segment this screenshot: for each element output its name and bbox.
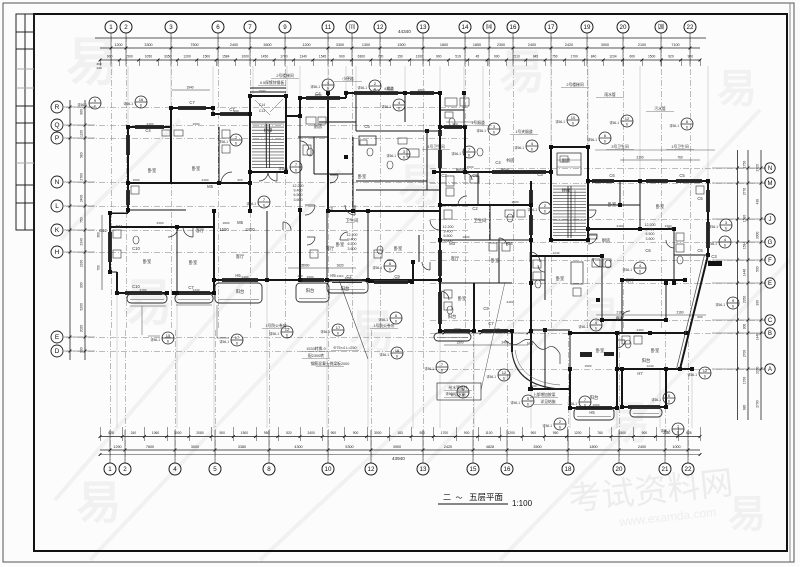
svg-text:卧室: 卧室 xyxy=(491,257,500,264)
svg-text:C5: C5 xyxy=(364,124,370,129)
svg-text:2400: 2400 xyxy=(307,431,315,435)
svg-text:760: 760 xyxy=(677,156,683,160)
svg-text:3380: 3380 xyxy=(238,445,246,449)
bay bracket leaders xyxy=(130,305,166,307)
svg-text:1号夹烟道: 1号夹烟道 xyxy=(515,129,533,134)
svg-text:M: M xyxy=(768,181,773,187)
svg-text:C11: C11 xyxy=(115,224,123,229)
svg-text:⒇: ⒇ xyxy=(658,23,664,31)
svg-text:750: 750 xyxy=(552,55,558,59)
svg-text:阳台: 阳台 xyxy=(642,357,651,364)
svg-text:3000: 3000 xyxy=(374,431,382,435)
svg-text:L: L xyxy=(55,203,59,210)
svg-text:C7: C7 xyxy=(488,321,494,326)
svg-text:900: 900 xyxy=(107,55,113,59)
svg-text:6: 6 xyxy=(493,131,495,135)
top dimension line 1 xyxy=(100,47,700,49)
svg-text:6.500: 6.500 xyxy=(444,234,453,238)
svg-text:6: 6 xyxy=(327,87,329,91)
svg-text:18: 18 xyxy=(565,466,572,473)
svg-text:3900: 3900 xyxy=(393,445,401,449)
svg-text:3000: 3000 xyxy=(191,445,199,449)
svg-text:21: 21 xyxy=(662,466,669,473)
svg-text:11: 11 xyxy=(325,24,332,31)
svg-text:C12: C12 xyxy=(99,228,107,233)
window symbols xyxy=(135,125,164,127)
svg-text:2180: 2180 xyxy=(616,311,623,315)
svg-text:6: 6 xyxy=(286,334,288,338)
svg-text:C4: C4 xyxy=(145,128,151,133)
vertical column grid lines upper xyxy=(110,36,112,330)
svg-text:900: 900 xyxy=(237,178,242,182)
svg-text:H7: H7 xyxy=(637,371,643,376)
svg-text:438: 438 xyxy=(756,199,760,205)
svg-text:厨房: 厨房 xyxy=(314,123,323,130)
svg-text:6: 6 xyxy=(668,400,670,404)
svg-text:3号卫生间: 3号卫生间 xyxy=(611,144,629,149)
svg-text:6: 6 xyxy=(677,431,679,435)
svg-text:6.500: 6.500 xyxy=(294,193,303,197)
svg-text:易: 易 xyxy=(76,477,121,528)
svg-text:900: 900 xyxy=(219,431,225,435)
svg-text:C5: C5 xyxy=(679,173,685,178)
svg-text:B: B xyxy=(768,331,772,337)
door swing arcs xyxy=(221,172,232,183)
svg-text:1500: 1500 xyxy=(387,258,394,262)
svg-text:6: 6 xyxy=(235,142,237,146)
svg-text:1545: 1545 xyxy=(319,55,327,59)
svg-text:1500: 1500 xyxy=(456,341,463,345)
annotation box 给水管道井 xyxy=(437,383,481,400)
svg-text:950: 950 xyxy=(553,431,559,435)
svg-text:2420: 2420 xyxy=(444,445,452,449)
svg-text:1240: 1240 xyxy=(345,276,352,280)
svg-text:A: A xyxy=(768,367,772,373)
svg-text:易: 易 xyxy=(717,67,757,111)
svg-text:详66-1: 详66-1 xyxy=(379,352,389,357)
svg-text:6: 6 xyxy=(572,122,574,126)
svg-text:2520: 2520 xyxy=(373,88,380,92)
svg-text:2110: 2110 xyxy=(337,274,344,278)
svg-text:1号烟道: 1号烟道 xyxy=(471,120,485,125)
building walls xyxy=(127,127,129,213)
svg-text:1500: 1500 xyxy=(307,275,314,279)
svg-text:6: 6 xyxy=(503,377,505,381)
svg-text:1300: 1300 xyxy=(665,224,672,228)
svg-text:900: 900 xyxy=(743,324,747,330)
svg-text:客厅: 客厅 xyxy=(451,255,460,262)
svg-text:1500: 1500 xyxy=(125,55,133,59)
svg-text:6: 6 xyxy=(704,375,706,379)
svg-text:详见结施: 详见结施 xyxy=(540,399,555,404)
svg-text:详66-1: 详66-1 xyxy=(381,104,391,109)
svg-text:～: ～ xyxy=(456,495,463,502)
svg-text:628: 628 xyxy=(686,431,692,435)
svg-text:1290: 1290 xyxy=(113,445,121,449)
svg-text:12.200: 12.200 xyxy=(443,225,454,229)
svg-text:0.5厚镀锌钢板: 0.5厚镀锌钢板 xyxy=(260,80,284,85)
svg-text:519: 519 xyxy=(455,55,461,59)
svg-text:6: 6 xyxy=(639,270,641,274)
svg-text:详66-1: 详66-1 xyxy=(424,366,434,371)
svg-text:8: 8 xyxy=(267,466,271,473)
svg-text:5300: 5300 xyxy=(345,445,353,449)
svg-text:1584: 1584 xyxy=(222,55,230,59)
title block strip xyxy=(16,14,34,230)
svg-text:2400: 2400 xyxy=(501,341,508,345)
svg-text:1500: 1500 xyxy=(397,43,405,47)
svg-text:4: 4 xyxy=(173,466,177,473)
svg-text:污水管: 污水管 xyxy=(654,106,666,111)
svg-text:183: 183 xyxy=(397,431,403,435)
svg-text:17: 17 xyxy=(235,335,240,340)
svg-text:6: 6 xyxy=(725,227,727,231)
svg-text:6: 6 xyxy=(441,369,443,373)
svg-text:D: D xyxy=(55,348,60,355)
svg-text:6: 6 xyxy=(389,268,391,272)
svg-text:H5: H5 xyxy=(589,410,595,415)
svg-text:6: 6 xyxy=(544,210,546,214)
svg-text:17: 17 xyxy=(548,24,555,31)
svg-text:卧室: 卧室 xyxy=(358,173,367,180)
svg-text:45: 45 xyxy=(476,55,480,59)
svg-text:6: 6 xyxy=(626,123,628,127)
svg-text:易: 易 xyxy=(349,306,395,358)
svg-text:2350: 2350 xyxy=(756,367,760,375)
svg-text:3600: 3600 xyxy=(263,43,271,47)
svg-text:4828: 4828 xyxy=(486,445,494,449)
svg-text:C5: C5 xyxy=(697,196,703,201)
svg-text:9.400: 9.400 xyxy=(294,189,303,193)
svg-text:Φ75×4 L=250: Φ75×4 L=250 xyxy=(333,346,356,350)
svg-text:详66-1: 详66-1 xyxy=(669,123,679,128)
svg-text:1200: 1200 xyxy=(183,55,191,59)
slanted right wall xyxy=(680,255,708,369)
svg-text:6: 6 xyxy=(584,404,586,408)
svg-text:900: 900 xyxy=(531,384,536,388)
svg-text:详见水施: 详见水施 xyxy=(450,392,465,397)
svg-text:1580: 1580 xyxy=(743,215,747,223)
svg-text:M5: M5 xyxy=(237,220,243,225)
svg-text:卧室: 卧室 xyxy=(596,347,605,354)
svg-text:卧室: 卧室 xyxy=(656,203,665,210)
svg-text:E: E xyxy=(768,281,772,287)
svg-text:920: 920 xyxy=(452,122,457,126)
left grid bubbles xyxy=(51,101,63,113)
svg-text:详66-1: 详66-1 xyxy=(555,119,565,124)
svg-text:H5: H5 xyxy=(235,273,241,278)
svg-text:840: 840 xyxy=(591,55,597,59)
svg-text:9.400: 9.400 xyxy=(646,228,655,232)
svg-text:C6: C6 xyxy=(645,248,651,253)
svg-text:900: 900 xyxy=(531,431,537,435)
svg-text:阳台: 阳台 xyxy=(306,287,315,294)
svg-text:12: 12 xyxy=(502,370,507,375)
svg-text:1446: 1446 xyxy=(756,333,760,341)
svg-text:960: 960 xyxy=(80,109,84,115)
svg-text:2780: 2780 xyxy=(80,173,84,181)
svg-text:15: 15 xyxy=(166,333,171,338)
svg-text:9: 9 xyxy=(283,24,287,31)
svg-text:3.600: 3.600 xyxy=(444,239,453,243)
fixtures xyxy=(359,136,376,145)
svg-text:五层平面: 五层平面 xyxy=(469,492,504,502)
svg-text:2400: 2400 xyxy=(637,328,644,332)
svg-text:卧室: 卧室 xyxy=(192,165,201,172)
svg-text:3.600: 3.600 xyxy=(348,247,357,251)
detail callout circles xyxy=(135,96,147,108)
svg-text:6300: 6300 xyxy=(358,55,366,59)
stair arrows xyxy=(265,122,267,162)
svg-text:900: 900 xyxy=(464,431,470,435)
svg-text:2350: 2350 xyxy=(743,296,747,304)
svg-text:详66-1: 详66-1 xyxy=(476,128,486,133)
svg-text:7100: 7100 xyxy=(671,43,679,47)
svg-text:1500: 1500 xyxy=(241,431,249,435)
svg-text:2700: 2700 xyxy=(140,288,147,292)
svg-text:13: 13 xyxy=(420,24,427,31)
svg-text:1500: 1500 xyxy=(203,55,211,59)
svg-text:详66-1: 详66-1 xyxy=(278,166,288,171)
svg-text:2400: 2400 xyxy=(202,178,209,182)
svg-text:1000: 1000 xyxy=(672,445,680,449)
svg-text:详66-1: 详66-1 xyxy=(527,207,537,212)
svg-text:配2300转: 配2300转 xyxy=(308,353,324,358)
svg-text:餐厅: 餐厅 xyxy=(616,315,625,322)
svg-text:900: 900 xyxy=(642,431,648,435)
svg-text:1500: 1500 xyxy=(585,364,592,368)
svg-text:2400: 2400 xyxy=(242,275,249,279)
svg-text:3: 3 xyxy=(169,24,173,31)
svg-text:客厅: 客厅 xyxy=(626,277,635,284)
svg-text:3300: 3300 xyxy=(336,43,344,47)
svg-text:900: 900 xyxy=(697,315,702,319)
svg-text:详66-1: 详66-1 xyxy=(567,401,577,406)
svg-text:1500: 1500 xyxy=(259,89,266,93)
svg-text:厨房: 厨房 xyxy=(602,237,611,244)
top grid bubbles xyxy=(105,21,117,33)
svg-text:详66-1: 详66-1 xyxy=(687,372,697,377)
svg-text:1050: 1050 xyxy=(145,55,153,59)
svg-text:900: 900 xyxy=(688,55,694,59)
svg-text:12: 12 xyxy=(377,24,384,31)
leader line annotations xyxy=(595,149,715,151)
svg-text:920: 920 xyxy=(494,327,499,331)
extension lines to top band xyxy=(127,66,129,127)
svg-text:240: 240 xyxy=(131,431,137,435)
svg-text:1800: 1800 xyxy=(589,445,597,449)
svg-text:C: C xyxy=(768,318,773,324)
svg-text:2400: 2400 xyxy=(230,43,238,47)
svg-text:客厅: 客厅 xyxy=(326,245,335,252)
svg-text:2: 2 xyxy=(124,24,128,31)
svg-text:1594: 1594 xyxy=(743,242,747,250)
svg-text:720: 720 xyxy=(378,55,384,59)
svg-text:2400: 2400 xyxy=(393,277,400,281)
left dimension lines xyxy=(69,100,71,360)
svg-text:详66-1: 详66-1 xyxy=(269,331,279,336)
svg-text:详66-1: 详66-1 xyxy=(510,400,520,405)
svg-text:6: 6 xyxy=(140,104,142,108)
svg-text:详66-1: 详66-1 xyxy=(386,153,396,158)
svg-text:2160: 2160 xyxy=(80,260,84,268)
svg-text:750: 750 xyxy=(80,217,84,223)
svg-text:20: 20 xyxy=(620,24,627,31)
svg-text:6: 6 xyxy=(724,244,726,248)
svg-text:卧室: 卧室 xyxy=(336,241,345,248)
svg-text:6: 6 xyxy=(396,355,398,359)
svg-text:12: 12 xyxy=(625,116,630,121)
svg-text:1号卫生间: 1号卫生间 xyxy=(427,144,445,149)
svg-text:1:100: 1:100 xyxy=(512,499,533,508)
svg-text:C5: C5 xyxy=(697,248,703,253)
svg-text:卫生间: 卫生间 xyxy=(346,217,359,224)
svg-text:300: 300 xyxy=(756,300,760,306)
svg-text:餐厅: 餐厅 xyxy=(501,167,510,174)
svg-text:4300: 4300 xyxy=(294,445,302,449)
right grid bubbles xyxy=(765,163,775,173)
svg-text:C2: C2 xyxy=(472,206,478,211)
svg-text:详66-1: 详66-1 xyxy=(542,423,552,428)
svg-text:6: 6 xyxy=(527,403,529,407)
svg-text:1200: 1200 xyxy=(507,431,515,435)
svg-text:1500: 1500 xyxy=(619,431,627,435)
svg-text:1700: 1700 xyxy=(571,55,579,59)
svg-text:6: 6 xyxy=(403,156,405,160)
svg-text:150: 150 xyxy=(397,55,403,59)
svg-text:6: 6 xyxy=(686,126,688,130)
svg-text:1000: 1000 xyxy=(241,55,249,59)
bottom overall dimension line xyxy=(100,454,700,456)
svg-text:1940: 1940 xyxy=(186,86,193,90)
svg-text:1520: 1520 xyxy=(467,165,474,169)
svg-text:2020: 2020 xyxy=(80,325,84,333)
svg-text:1200: 1200 xyxy=(574,431,582,435)
svg-text:1: 1 xyxy=(108,466,112,473)
svg-text:900: 900 xyxy=(80,347,84,353)
svg-text:楼梯: 楼梯 xyxy=(264,127,273,134)
svg-text:920: 920 xyxy=(668,55,674,59)
svg-text:900: 900 xyxy=(80,282,84,288)
svg-text:1100: 1100 xyxy=(80,130,84,137)
svg-text:卧室: 卧室 xyxy=(148,167,157,174)
svg-text:43940: 43940 xyxy=(392,456,405,461)
svg-text:2号楼梯间: 2号楼梯间 xyxy=(566,82,584,87)
svg-text:9.400: 9.400 xyxy=(444,230,453,234)
svg-text:460: 460 xyxy=(297,274,302,278)
svg-text:M5: M5 xyxy=(207,184,213,189)
svg-text:厨房: 厨房 xyxy=(456,167,465,174)
svg-text:雨水管: 雨水管 xyxy=(604,92,616,97)
svg-text:16: 16 xyxy=(139,97,144,102)
svg-text:12.200: 12.200 xyxy=(347,233,358,237)
beam section mark xyxy=(708,261,722,266)
right dimension lines xyxy=(737,150,739,420)
svg-text:22: 22 xyxy=(685,466,692,473)
svg-text:2400: 2400 xyxy=(507,300,514,304)
svg-text:N: N xyxy=(768,166,772,172)
svg-text:12: 12 xyxy=(703,368,708,373)
svg-text:书房: 书房 xyxy=(506,157,515,164)
svg-text:N: N xyxy=(55,179,60,186)
svg-text:900: 900 xyxy=(233,109,238,113)
svg-text:1240: 1240 xyxy=(647,364,654,368)
svg-text:900: 900 xyxy=(339,55,345,59)
svg-text:1500: 1500 xyxy=(219,227,229,232)
svg-text:详66-1: 详66-1 xyxy=(357,85,367,90)
svg-text:2100: 2100 xyxy=(636,156,643,160)
svg-text:12: 12 xyxy=(368,466,375,473)
svg-text:6: 6 xyxy=(295,169,297,173)
svg-text:详66-1: 详66-1 xyxy=(451,151,461,156)
svg-text:阳台: 阳台 xyxy=(341,285,350,292)
svg-text:16: 16 xyxy=(504,466,511,473)
svg-text:阳台: 阳台 xyxy=(236,288,245,295)
svg-text:7500: 7500 xyxy=(190,43,198,47)
svg-text:1200: 1200 xyxy=(302,43,310,47)
svg-text:1060: 1060 xyxy=(152,431,160,435)
svg-text:6: 6 xyxy=(167,340,169,344)
svg-text:二: 二 xyxy=(443,493,451,502)
svg-text:3300: 3300 xyxy=(144,43,152,47)
svg-text:详66-1: 详66-1 xyxy=(651,397,661,402)
svg-text:卧室: 卧室 xyxy=(608,201,617,208)
svg-text:12.200: 12.200 xyxy=(293,184,304,188)
svg-text:1700: 1700 xyxy=(441,431,449,435)
svg-text:1800: 1800 xyxy=(440,43,448,47)
svg-text:945: 945 xyxy=(533,55,539,59)
svg-text:C5: C5 xyxy=(472,173,478,178)
bottom dimension line 2 xyxy=(100,449,700,451)
svg-text:F: F xyxy=(768,258,772,264)
svg-text:500: 500 xyxy=(756,266,760,272)
svg-text:详66-1: 详66-1 xyxy=(218,139,228,144)
svg-text:1620: 1620 xyxy=(336,264,343,268)
svg-text:1700: 1700 xyxy=(743,377,747,385)
svg-text:1800: 1800 xyxy=(454,327,461,331)
svg-text:给水管道井: 给水管道井 xyxy=(449,385,468,390)
svg-text:1340: 1340 xyxy=(193,288,200,292)
svg-text:C3: C3 xyxy=(537,172,543,177)
svg-text:12.200: 12.200 xyxy=(645,223,656,227)
bottom grid bubbles xyxy=(104,463,116,475)
svg-text:20: 20 xyxy=(616,466,623,473)
svg-text:2700: 2700 xyxy=(743,350,747,358)
svg-text:1300: 1300 xyxy=(362,43,370,47)
structural piers xyxy=(126,125,130,129)
svg-text:15: 15 xyxy=(470,466,477,473)
svg-text:1510: 1510 xyxy=(512,55,520,59)
svg-text:⒁: ⒁ xyxy=(486,23,492,31)
svg-text:详66-1: 详66-1 xyxy=(150,337,160,342)
svg-text:C6: C6 xyxy=(609,173,615,178)
svg-text:2号楼梯间: 2号楼梯间 xyxy=(276,73,294,78)
svg-text:6.500: 6.500 xyxy=(348,242,357,246)
svg-text:6: 6 xyxy=(559,426,561,430)
svg-text:卧室: 卧室 xyxy=(458,295,467,302)
svg-text:2100: 2100 xyxy=(638,43,646,47)
svg-text:小便器: 小便器 xyxy=(342,76,354,81)
balcony bays xyxy=(127,294,167,303)
svg-text:520: 520 xyxy=(286,431,292,435)
top band reference line xyxy=(95,37,706,39)
svg-text:2160: 2160 xyxy=(676,311,683,315)
svg-text:628: 628 xyxy=(108,431,114,435)
svg-text:6: 6 xyxy=(236,342,238,346)
svg-text:6: 6 xyxy=(395,320,397,324)
svg-text:2420: 2420 xyxy=(565,43,573,47)
svg-text:详66-1: 详66-1 xyxy=(77,102,87,107)
